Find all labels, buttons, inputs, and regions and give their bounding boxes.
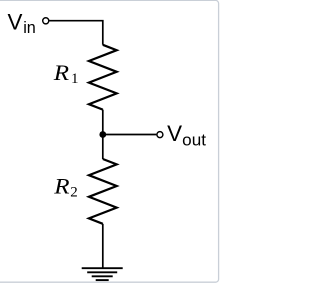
label R1 [53,60,79,87]
svg-text:1: 1 [71,71,79,87]
resistor R1 [89,45,117,110]
node Vin [43,18,49,24]
svg-text:V: V [8,9,23,34]
wire [103,134,157,136]
svg-text:R: R [53,174,70,199]
label Vin [8,9,36,37]
label R2 [53,174,78,201]
svg-text:V: V [167,121,182,146]
wire [102,110,104,159]
svg-text:out: out [182,132,206,150]
junction [99,131,106,138]
svg-text:in: in [23,19,36,37]
label Vout [167,121,206,149]
svg-text:2: 2 [70,185,78,201]
wire [102,224,104,268]
wire [50,21,103,45]
ground [82,268,123,280]
resistor R2 [89,159,117,224]
node Vout [157,132,163,138]
svg-text:R: R [53,60,70,85]
